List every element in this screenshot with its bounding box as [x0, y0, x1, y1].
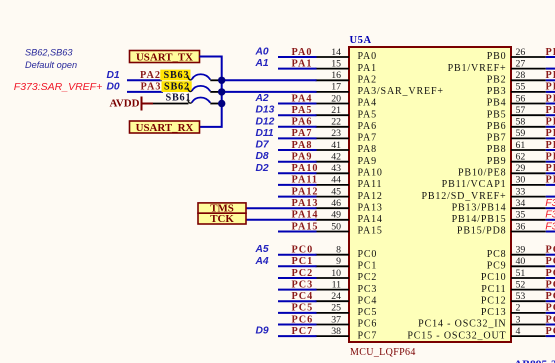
svg-text:29: 29: [516, 163, 526, 174]
svg-text:D0: D0: [107, 81, 120, 92]
pin PC14 - OSC32_IN (3): [418, 314, 546, 329]
svg-text:PC2: PC2: [292, 268, 314, 279]
svg-text:17: 17: [331, 82, 341, 93]
svg-text:42: 42: [331, 152, 341, 163]
svg-text:PC1: PC1: [292, 256, 314, 267]
wire TMS to PA13: [246, 207, 317, 209]
svg-text:PC15: PC15: [546, 326, 555, 337]
svg-text:PA15: PA15: [292, 221, 319, 232]
svg-text:PC1: PC1: [358, 261, 378, 272]
wire PC11 right: [546, 289, 555, 291]
svg-text:PA5: PA5: [358, 109, 377, 120]
pin PC13 (2): [481, 303, 546, 318]
svg-text:PC8: PC8: [546, 245, 555, 256]
svg-text:PA3/SAR_VREF+: PA3/SAR_VREF+: [358, 86, 444, 97]
svg-text:PB4: PB4: [487, 98, 507, 109]
svg-text:PA13: PA13: [292, 198, 319, 209]
svg-text:D2: D2: [256, 163, 269, 174]
svg-text:D11: D11: [256, 128, 274, 139]
svg-text:F373:SAR_VREF+: F373:SAR_VREF+: [14, 81, 102, 93]
svg-text:PA11: PA11: [292, 175, 318, 186]
wire PB13/PB14 right: [546, 207, 555, 209]
svg-text:F373: F373: [545, 197, 555, 209]
svg-text:PB14/PB15: PB14/PB15: [452, 214, 507, 225]
wire PA11: [278, 184, 317, 186]
pin PA15 (50): [316, 221, 383, 236]
svg-text:PB2: PB2: [487, 75, 507, 86]
wire PB9 right: [546, 161, 555, 163]
svg-text:PB5: PB5: [487, 109, 507, 120]
pin PA13 (46): [316, 198, 383, 213]
pin PC0 (8): [316, 245, 378, 260]
svg-text:PA15: PA15: [358, 226, 383, 237]
svg-text:PB13/PB14: PB13/PB14: [452, 202, 507, 213]
wire PA7: [278, 137, 317, 139]
wire PC9 right: [546, 265, 555, 267]
svg-text:PA5: PA5: [292, 105, 313, 116]
svg-text:PA14: PA14: [358, 214, 383, 225]
wire PC2: [278, 277, 317, 279]
svg-text:PC5: PC5: [358, 307, 378, 318]
wire PC1: [278, 265, 317, 267]
junction SB61/USART: [218, 100, 225, 107]
pin PA6 (22): [316, 117, 377, 132]
wire PA5: [278, 114, 317, 116]
svg-text:8: 8: [336, 245, 341, 256]
wire PB5 right: [546, 114, 555, 116]
highlight SB62: [162, 81, 192, 92]
wire PA12: [278, 196, 317, 198]
svg-text:45: 45: [331, 186, 341, 197]
svg-text:PA8: PA8: [292, 140, 313, 151]
svg-text:PC15 - OSC32_OUT: PC15 - OSC32_OUT: [407, 330, 506, 341]
wire PB7 right: [546, 137, 555, 139]
pin PB7 (59): [487, 128, 546, 143]
svg-text:PB5: PB5: [546, 105, 555, 116]
wire PA4: [278, 103, 317, 105]
pin PA3/SAR_VREF+ (17): [316, 82, 444, 97]
svg-text:62: 62: [516, 152, 526, 163]
svg-text:51: 51: [516, 268, 526, 279]
svg-text:2: 2: [516, 303, 521, 314]
pin PB3 (55): [487, 82, 546, 97]
pin PC2 (10): [316, 268, 378, 283]
wire PC10 right: [546, 277, 555, 279]
highlight SB63: [160, 70, 190, 81]
pin PC11 (52): [481, 279, 546, 294]
wire PA0: [278, 56, 317, 58]
wire PA6: [278, 126, 317, 128]
svg-text:10: 10: [331, 268, 341, 279]
svg-text:24: 24: [331, 291, 341, 302]
svg-text:27: 27: [516, 58, 526, 69]
pin PC6 (37): [316, 314, 378, 329]
svg-text:PC0: PC0: [292, 245, 314, 256]
pin PA0 (14): [316, 47, 377, 62]
svg-text:49: 49: [331, 210, 341, 221]
svg-text:D7: D7: [256, 140, 270, 151]
svg-text:59: 59: [516, 128, 526, 139]
wire PB8 right: [546, 149, 555, 151]
op-amp U5A MCU chip body: [349, 47, 511, 342]
svg-text:16: 16: [331, 70, 341, 81]
svg-text:SB63: SB63: [164, 70, 190, 81]
svg-text:PA13: PA13: [358, 202, 383, 213]
svg-text:PC0: PC0: [358, 249, 378, 260]
svg-text:PB3: PB3: [487, 86, 507, 97]
svg-text:PA2: PA2: [140, 70, 161, 81]
solder bridge SB62 arc: [188, 86, 222, 92]
svg-text:11: 11: [332, 279, 342, 290]
svg-text:PC3: PC3: [292, 279, 314, 290]
pin PA5 (21): [316, 105, 377, 120]
svg-text:PB0: PB0: [546, 47, 555, 58]
wire PB10 right: [546, 172, 555, 174]
pin PC3 (11): [316, 279, 378, 294]
wire PC8 right: [546, 254, 555, 256]
svg-text:PA12: PA12: [358, 191, 383, 202]
svg-text:PC9: PC9: [546, 256, 555, 267]
junction PA2/USART: [218, 77, 225, 84]
svg-text:PC13: PC13: [546, 303, 555, 314]
svg-text:PB9: PB9: [487, 156, 507, 167]
wire PA2 to SB bridge: [222, 79, 317, 81]
pin PC10 (51): [481, 268, 546, 283]
svg-text:A5: A5: [255, 244, 269, 255]
svg-text:D1: D1: [107, 70, 120, 81]
pin PB10/PE8 (29): [458, 163, 546, 178]
svg-text:PC2: PC2: [358, 272, 378, 283]
svg-text:PA9: PA9: [292, 152, 313, 163]
svg-text:28: 28: [516, 70, 526, 81]
pin PA10 (43): [316, 163, 383, 178]
svg-text:PA10: PA10: [292, 163, 319, 174]
pin PB13/PB14 (34): [452, 198, 546, 213]
svg-text:PB4: PB4: [546, 93, 555, 104]
wire PA9: [278, 161, 317, 163]
svg-text:57: 57: [516, 105, 526, 116]
svg-text:PC12: PC12: [481, 295, 507, 306]
pin PB0 (26): [487, 47, 546, 62]
port TMS: [198, 202, 246, 214]
svg-text:PA0: PA0: [358, 51, 377, 62]
pin PC15 - OSC32_OUT (4): [407, 326, 545, 341]
wire PA10: [278, 172, 317, 174]
svg-text:33: 33: [516, 186, 526, 197]
svg-text:PB15/PD8: PB15/PD8: [457, 226, 507, 237]
svg-text:40: 40: [516, 256, 526, 267]
pin PC4 (24): [316, 291, 378, 306]
svg-text:PC12: PC12: [546, 291, 555, 302]
wire USART_TX: [200, 57, 222, 127]
svg-text:PA11: PA11: [358, 179, 383, 190]
svg-text:PB11/VCAP1: PB11/VCAP1: [442, 179, 507, 190]
wire PA1: [278, 68, 317, 70]
svg-text:PC7: PC7: [292, 326, 314, 337]
svg-text:A4: A4: [255, 256, 269, 267]
svg-text:PA1: PA1: [292, 58, 313, 69]
svg-text:F373: F373: [545, 209, 555, 221]
svg-text:38: 38: [331, 326, 341, 337]
wire PC3: [278, 289, 317, 291]
svg-text:D12: D12: [256, 116, 275, 127]
solder bridge SB61 arc: [188, 97, 222, 103]
svg-text:AVDD: AVDD: [109, 98, 139, 110]
svg-text:USART_TX: USART_TX: [136, 51, 193, 63]
pin PB15/PD8 (36): [457, 221, 546, 236]
svg-text:AB895-32: AB895-32: [514, 359, 555, 363]
svg-text:PC6: PC6: [292, 314, 314, 325]
solder bridge SB63 arc: [188, 74, 222, 80]
pin PA4 (20): [316, 93, 377, 108]
pin PB12/SD_VREF+ (33): [421, 186, 545, 201]
pin PC5 (25): [316, 303, 378, 318]
note SB62,SB63 default open: [25, 47, 77, 70]
pin PB5 (57): [487, 105, 546, 120]
svg-text:D9: D9: [256, 326, 269, 337]
pin PC8 (39): [487, 245, 546, 260]
svg-text:3: 3: [516, 314, 521, 325]
wire PA3/SAR_VREF+ to SB bridge: [222, 91, 317, 93]
svg-text:34: 34: [516, 198, 526, 209]
svg-text:55: 55: [516, 82, 526, 93]
svg-text:PC7: PC7: [358, 330, 378, 341]
svg-text:PA12: PA12: [292, 186, 319, 197]
pin PA7 (23): [316, 128, 377, 143]
svg-text:A0: A0: [255, 47, 269, 58]
svg-text:PB2: PB2: [546, 70, 555, 81]
svg-text:46: 46: [331, 198, 341, 209]
svg-text:PA1: PA1: [358, 63, 377, 74]
svg-text:PA8: PA8: [358, 144, 377, 155]
pin PA1 (15): [316, 58, 377, 73]
wire PC13 right: [546, 312, 555, 314]
pin PC7 (38): [316, 326, 378, 341]
svg-text:TCK: TCK: [210, 213, 234, 225]
pin PB4 (56): [487, 93, 546, 108]
pin PB8 (61): [487, 140, 546, 155]
svg-text:PC11: PC11: [546, 279, 555, 290]
svg-text:9: 9: [336, 256, 341, 267]
wire PC14 right: [546, 324, 555, 326]
port TCK: [198, 213, 246, 225]
svg-text:PA0: PA0: [292, 47, 313, 58]
wire PC15 right: [546, 335, 555, 337]
svg-text:PC8: PC8: [487, 249, 507, 260]
svg-text:PB10: PB10: [546, 163, 555, 174]
svg-text:PB6: PB6: [487, 121, 507, 132]
port USART_RX: [130, 121, 200, 134]
svg-text:PC4: PC4: [358, 295, 378, 306]
svg-text:14: 14: [331, 47, 341, 58]
pin PA2 (16): [316, 70, 377, 85]
wire PB1/VREF+ right: [546, 68, 555, 70]
pin PB14/PB15 (35): [452, 210, 546, 225]
svg-text:61: 61: [516, 140, 526, 151]
pin PA11 (44): [316, 175, 383, 190]
wire PB11 right: [546, 184, 555, 186]
wire PB2 right: [546, 79, 555, 81]
svg-text:PC13: PC13: [481, 307, 507, 318]
svg-text:20: 20: [331, 93, 341, 104]
svg-text:56: 56: [516, 93, 526, 104]
svg-text:PC14 - OSC32_IN: PC14 - OSC32_IN: [418, 319, 506, 330]
svg-text:PC14: PC14: [546, 314, 555, 325]
svg-text:PA7: PA7: [358, 133, 377, 144]
pin PB11/VCAP1 (30): [442, 175, 546, 190]
wire PC12 right: [546, 300, 555, 302]
pin PB9 (62): [487, 152, 546, 167]
wire PC0: [278, 254, 317, 256]
wire PB12/SD_VREF+ right: [546, 196, 555, 198]
svg-text:PA14: PA14: [292, 210, 319, 221]
svg-text:PB9: PB9: [546, 152, 555, 163]
svg-text:44: 44: [331, 175, 341, 186]
svg-text:PA4: PA4: [358, 98, 377, 109]
pin PB2 (28): [487, 70, 546, 85]
svg-text:PA6: PA6: [358, 121, 377, 132]
svg-text:PA6: PA6: [292, 117, 313, 128]
svg-text:PA7: PA7: [292, 128, 313, 139]
svg-text:35: 35: [516, 210, 526, 221]
wire PC4: [278, 300, 317, 302]
svg-text:4: 4: [516, 326, 521, 337]
pin PA14 (49): [316, 210, 383, 225]
svg-text:PB7: PB7: [546, 128, 555, 139]
svg-text:PA3: PA3: [141, 82, 162, 93]
svg-text:PC5: PC5: [292, 303, 314, 314]
svg-text:PB6: PB6: [546, 117, 555, 128]
svg-text:PC3: PC3: [358, 284, 378, 295]
wire D1/PA2: [127, 79, 162, 81]
svg-text:SB62,SB63: SB62,SB63: [25, 47, 73, 57]
svg-text:15: 15: [331, 58, 341, 69]
wire PC5: [278, 312, 317, 314]
svg-text:SB62: SB62: [164, 82, 190, 93]
wire PB4 right: [546, 103, 555, 105]
pin PA12 (45): [316, 186, 383, 201]
wire PB15/PD8 right: [546, 231, 555, 233]
svg-text:PA9: PA9: [358, 156, 377, 167]
svg-text:PC4: PC4: [292, 291, 314, 302]
svg-text:D8: D8: [256, 151, 269, 162]
wire PB3 right: [546, 91, 555, 93]
svg-text:PB0: PB0: [487, 51, 507, 62]
svg-text:A2: A2: [255, 93, 269, 104]
pin PC1 (9): [316, 256, 378, 271]
svg-text:A1: A1: [255, 58, 269, 69]
svg-text:PA2: PA2: [358, 75, 377, 86]
svg-text:SB61: SB61: [166, 93, 192, 104]
svg-text:Default open: Default open: [25, 60, 77, 70]
svg-text:53: 53: [516, 291, 526, 302]
wire PB6 right: [546, 126, 555, 128]
svg-text:PB11: PB11: [546, 175, 555, 186]
port USART_TX: [130, 51, 200, 64]
svg-text:PB1/VREF+: PB1/VREF+: [448, 63, 507, 74]
junction PA3/USART: [218, 88, 225, 95]
svg-text:PC11: PC11: [481, 284, 506, 295]
svg-text:PB7: PB7: [487, 133, 507, 144]
svg-text:PB10/PE8: PB10/PE8: [458, 168, 506, 179]
svg-text:37: 37: [331, 314, 341, 325]
pin PC9 (40): [487, 256, 546, 271]
svg-text:41: 41: [331, 140, 341, 151]
svg-text:PB8: PB8: [546, 140, 555, 151]
svg-text:PC10: PC10: [481, 272, 507, 283]
svg-text:PA4: PA4: [292, 93, 313, 104]
pin PA8 (41): [316, 140, 377, 155]
wire PB0 right: [546, 56, 555, 58]
pin PB6 (58): [487, 117, 546, 132]
svg-text:PA10: PA10: [358, 168, 383, 179]
wire TCK to PA14: [246, 219, 317, 221]
svg-text:21: 21: [331, 105, 341, 116]
pin PB1/VREF+ (27): [448, 58, 546, 73]
svg-text:PC6: PC6: [358, 319, 378, 330]
wire PA8: [278, 149, 317, 151]
svg-text:50: 50: [331, 221, 341, 232]
wire PA15: [278, 231, 317, 233]
wire PB14/PB15 right: [546, 219, 555, 221]
pin PC12 (53): [481, 291, 546, 306]
svg-text:F373: F373: [545, 220, 555, 232]
wire AVDD to SB61: [153, 103, 189, 105]
wire PC6: [278, 324, 317, 326]
svg-text:25: 25: [331, 303, 341, 314]
wire PC7: [278, 335, 317, 337]
svg-text:PC10: PC10: [546, 268, 555, 279]
power port AVDD: [109, 97, 153, 111]
svg-text:58: 58: [516, 117, 526, 128]
svg-text:USART_RX: USART_RX: [136, 122, 194, 134]
wire D0/PA3: [127, 91, 163, 93]
svg-text:23: 23: [331, 128, 341, 139]
svg-text:MCU_LQFP64: MCU_LQFP64: [350, 347, 416, 358]
svg-text:PB8: PB8: [487, 144, 507, 155]
svg-text:43: 43: [331, 163, 341, 174]
svg-text:U5A: U5A: [350, 35, 372, 46]
svg-text:26: 26: [516, 47, 526, 58]
svg-text:30: 30: [516, 175, 526, 186]
svg-text:39: 39: [516, 245, 526, 256]
svg-text:52: 52: [516, 279, 526, 290]
svg-text:PC9: PC9: [487, 261, 507, 272]
svg-text:PB12/SD_VREF+: PB12/SD_VREF+: [421, 191, 506, 202]
pin PA9 (42): [316, 152, 377, 167]
svg-text:36: 36: [516, 221, 526, 232]
svg-text:22: 22: [331, 117, 341, 128]
svg-text:D13: D13: [256, 105, 275, 116]
svg-text:PB3: PB3: [546, 82, 555, 93]
